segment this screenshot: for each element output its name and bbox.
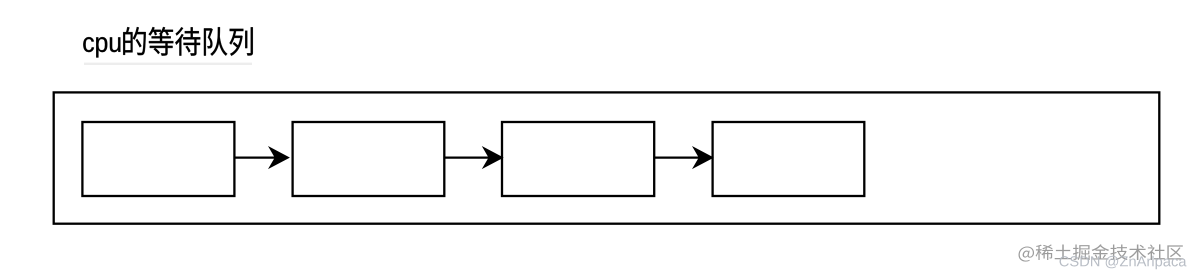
faint artifact line under title xyxy=(84,63,252,65)
watermark: CSDN @ZnArlpaca xyxy=(1060,256,1187,269)
arrow 3: node 3 to node 4 xyxy=(654,147,713,168)
queue node box 3 xyxy=(502,122,654,196)
arrow 2: node 2 to node 3 xyxy=(444,147,502,168)
title: cpu的等待队列 xyxy=(83,27,253,58)
queue node box 1 xyxy=(82,122,234,196)
arrow 1: node 1 to node 2 xyxy=(234,147,288,168)
queue node box 4 xyxy=(713,122,865,196)
watermark: @稀土掘金技术社区 xyxy=(1019,244,1184,261)
outer rectangle: cpu wait queue container xyxy=(54,92,1160,223)
queue node box 2 xyxy=(293,122,445,196)
